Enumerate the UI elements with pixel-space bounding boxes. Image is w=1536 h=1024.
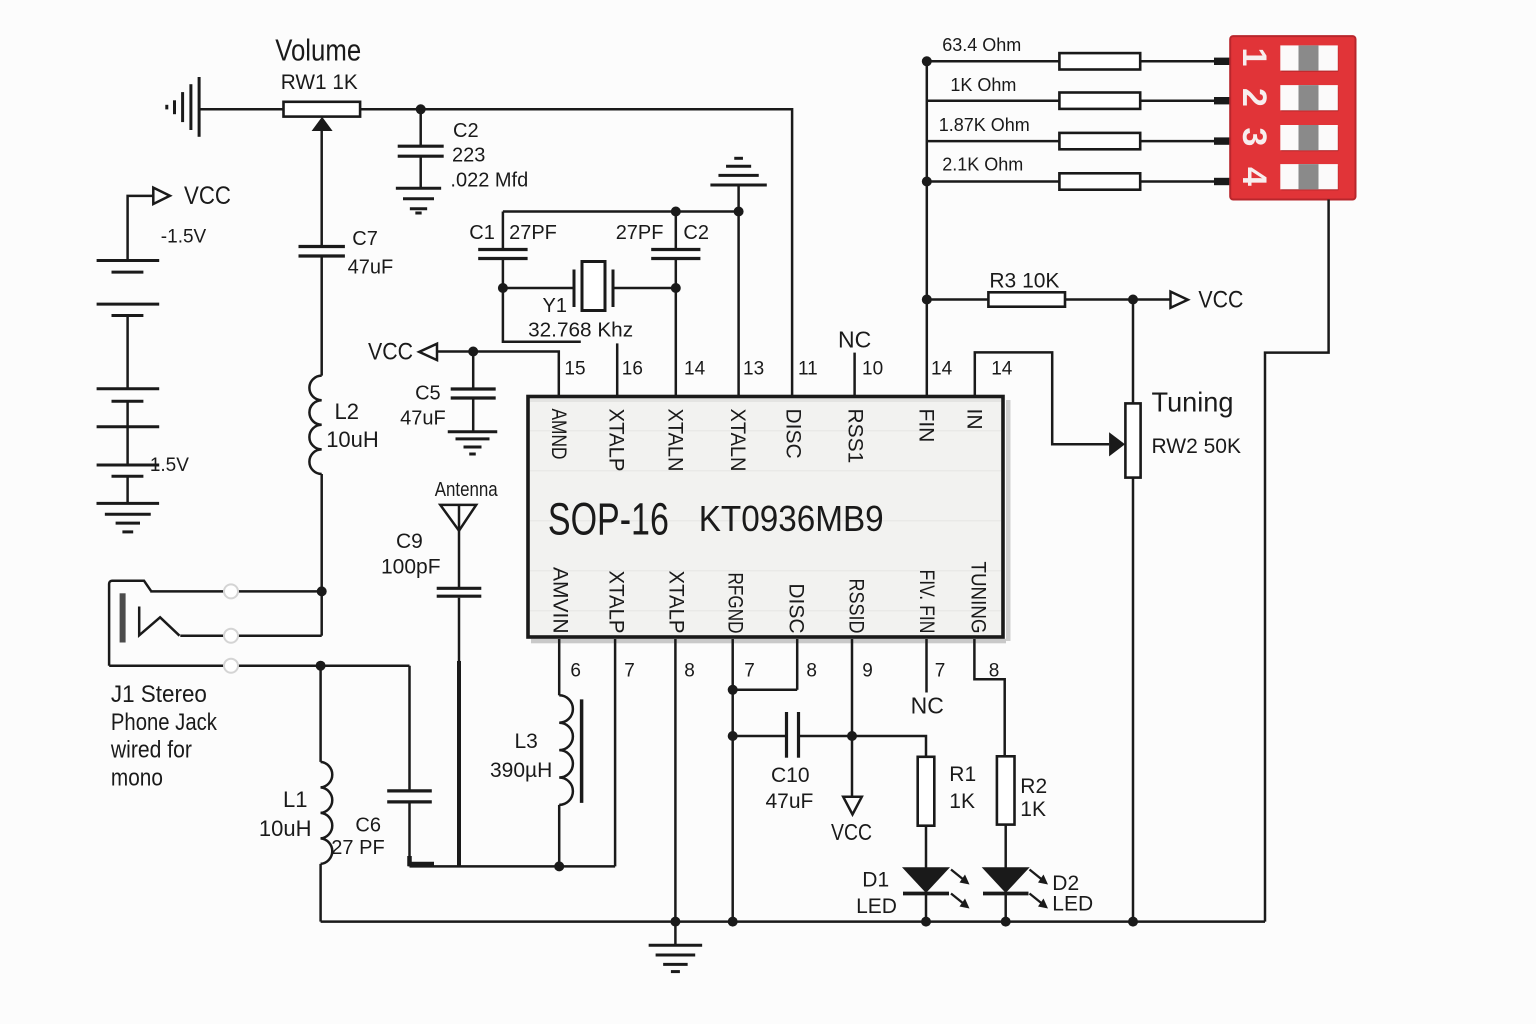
svg-text:14: 14: [931, 359, 953, 380]
svg-text:XTALP: XTALP: [665, 571, 688, 634]
junction bus-ground: [670, 917, 680, 927]
svg-text:VCC: VCC: [1198, 287, 1243, 314]
DIP switch SW1 body: [1230, 36, 1355, 199]
svg-text:KT0936MB9: KT0936MB9: [699, 498, 884, 539]
wire row4 bus to resistor: [927, 180, 1060, 183]
svg-text:16: 16: [622, 359, 643, 380]
svg-text:47uF: 47uF: [348, 256, 394, 278]
wire ladder bus: [926, 61, 929, 299]
capacitor C10 plates: [785, 712, 788, 758]
svg-text:.022 Mfd: .022 Mfd: [450, 170, 528, 192]
svg-text:27PF: 27PF: [509, 222, 557, 244]
VCC arrow (mid, pointing left): [419, 344, 437, 360]
svg-text:8: 8: [684, 661, 695, 682]
resistor 1K Ohm body: [1059, 93, 1140, 109]
svg-text:LED: LED: [1052, 893, 1093, 916]
svg-text:1: 1: [1235, 48, 1273, 67]
svg-text:7: 7: [624, 661, 635, 682]
wire C2b lower to IC pin 14 (XTALN): [675, 260, 678, 397]
svg-text:11: 11: [798, 359, 818, 380]
wire L2 to jack tip junction: [320, 474, 323, 591]
capacitor C9 plates: [437, 587, 482, 590]
wire junction down to RW2: [1132, 300, 1135, 404]
LED D1 triangle: [902, 867, 950, 893]
svg-text:R3 10K: R3 10K: [989, 269, 1059, 292]
wire C6 lower to rf wire: [408, 803, 411, 866]
wire ground G1 to RW1 left: [199, 108, 283, 111]
junction sleeve-L1: [316, 661, 326, 671]
wire jack ring line: [180, 634, 321, 637]
junction C10-RSSID: [847, 731, 857, 741]
svg-text:RSSID: RSSID: [845, 579, 868, 634]
svg-text:IN: IN: [962, 409, 985, 430]
wire C10 left lead: [733, 735, 785, 738]
svg-text:9: 9: [862, 661, 873, 682]
inductor L3 core bar: [580, 699, 584, 803]
svg-text:390µH: 390µH: [490, 759, 552, 782]
junction bus-R3: [922, 295, 932, 305]
battery B1 cell plates: [97, 259, 160, 262]
wire row2 resistor to DIP pin: [1140, 99, 1214, 102]
wire D1 to bus: [925, 894, 928, 922]
svg-text:C1: C1: [469, 222, 495, 244]
wire RW1 right to IC pin 11 (DISC top): [360, 109, 792, 396]
svg-text:13: 13: [743, 359, 764, 380]
wire IC pin 8 (XTALP) to bus: [674, 639, 677, 922]
crystal Y1 body: [582, 262, 605, 311]
svg-text:Antenna: Antenna: [435, 479, 499, 501]
jack contact circle 3: [224, 659, 238, 673]
svg-text:C9: C9: [396, 530, 423, 553]
potentiometer RW1 wiper arrow: [312, 117, 333, 131]
svg-text:wired for: wired for: [110, 737, 192, 764]
wire C7 to L2: [320, 257, 323, 376]
svg-text:Y1: Y1: [543, 295, 567, 317]
svg-text:223: 223: [452, 145, 485, 167]
svg-text:27 PF: 27 PF: [331, 837, 384, 859]
LED D2 cathode bar: [983, 892, 1029, 896]
wire IC pin 8 (TUNING) to R2: [974, 639, 1004, 756]
phone jack J1 tip contact zigzag: [139, 607, 179, 636]
wire IC pin 9 (RSSID) down: [851, 639, 854, 736]
wire VCC-down stub: [851, 736, 854, 797]
svg-text:7: 7: [744, 661, 755, 682]
svg-text:VCC: VCC: [184, 182, 231, 210]
capacitor C2 27PF plates: [651, 248, 700, 251]
svg-text:32.768 Khz: 32.768 Khz: [528, 319, 633, 341]
wire R3 right to VCC arrow: [1065, 298, 1171, 301]
wire RFGND down to C10 node: [731, 690, 734, 736]
svg-text:8: 8: [806, 661, 817, 682]
LED D2 triangle: [982, 867, 1030, 893]
wire crystal left lead: [503, 287, 574, 290]
wire battery mid2: [126, 427, 129, 465]
wire D2 to bus: [1004, 894, 1007, 922]
wire ground stub: [674, 922, 677, 946]
svg-text:NC: NC: [911, 692, 944, 718]
svg-text:47uF: 47uF: [766, 790, 814, 813]
wire L1 lower to bus: [319, 864, 322, 922]
wire antenna feed (thick) to rf wire: [457, 661, 461, 866]
inductor L2 10uH coil: [309, 376, 321, 474]
svg-text:47uF: 47uF: [400, 407, 446, 429]
svg-text:C6: C6: [355, 815, 381, 837]
wire C2 branch lower: [419, 157, 422, 188]
resistor R3 body: [988, 292, 1065, 306]
svg-text:Tuning: Tuning: [1152, 387, 1234, 418]
capacitor C6 plates: [387, 789, 432, 792]
wire RW1 wiper down to C7: [320, 131, 323, 246]
svg-text:XTALN: XTALN: [664, 409, 687, 472]
svg-text:XTALN: XTALN: [726, 409, 749, 472]
junction C1-crystal: [498, 283, 508, 293]
svg-text:1.87K Ohm: 1.87K Ohm: [939, 115, 1030, 135]
wire IC pin 6 (AMVIN) to L3: [558, 639, 561, 695]
svg-text:C7: C7: [352, 228, 378, 250]
wire IC pin 16 stub (XTALP): [616, 343, 619, 396]
capacitor C7 plates: [299, 245, 345, 248]
wire row4 resistor to DIP pin: [1140, 180, 1214, 183]
wire VCC to battery top: [128, 196, 154, 259]
svg-text:L1: L1: [283, 787, 307, 812]
svg-text:TUNING: TUNING: [967, 562, 990, 634]
DIP rocker 2: [1281, 87, 1338, 111]
wire R3 left: [927, 298, 989, 301]
wire RFGND to DISC link: [733, 689, 798, 692]
wire RFGND line to bus: [731, 736, 734, 922]
capacitor C1 27PF plates: [478, 248, 527, 251]
wire IC pin 8 (DISC) down: [796, 639, 799, 690]
svg-text:J1 Stereo: J1 Stereo: [111, 681, 207, 708]
inductor L1 10uH coil: [321, 762, 333, 864]
junction bus-RW2: [1128, 917, 1138, 927]
wire C1 lower: [502, 260, 505, 289]
svg-text:RSS1: RSS1: [844, 409, 867, 464]
junction wiper-jack tip: [317, 586, 327, 596]
svg-text:Phone Jack: Phone Jack: [111, 709, 218, 736]
resistor 2.1K Ohm body: [1059, 173, 1140, 189]
DIP rocker 4: [1281, 166, 1338, 190]
crystal Y1 side plates: [573, 270, 576, 308]
wire IC pin 14 (IN) up-over to tuning arrow: [975, 352, 1109, 444]
svg-text:15: 15: [564, 359, 585, 380]
svg-text:14: 14: [991, 359, 1013, 380]
svg-text:DISC: DISC: [785, 583, 808, 633]
wire C6 branch upper: [408, 666, 411, 790]
svg-text:LED: LED: [856, 895, 897, 918]
wire RW2 bottom to bus: [1132, 478, 1135, 922]
svg-text:100pF: 100pF: [381, 556, 441, 579]
junction crystal-C2b: [671, 283, 681, 293]
wire row3 bus to resistor: [927, 140, 1060, 143]
svg-text:FIV. FIN: FIV. FIN: [915, 570, 938, 634]
wire C1 upper: [502, 212, 505, 249]
LED D1 cathode bar: [903, 892, 949, 896]
DIP rocker 3: [1281, 127, 1338, 151]
wire R1 to D1: [925, 826, 928, 868]
svg-text:7: 7: [935, 661, 946, 682]
junction C5 tap: [468, 347, 478, 357]
svg-text:RW1 1K: RW1 1K: [281, 70, 359, 94]
svg-text:RW2 50K: RW2 50K: [1152, 435, 1242, 458]
svg-text:C5: C5: [415, 383, 441, 405]
svg-text:-1.5V: -1.5V: [161, 227, 207, 248]
wire IC pin 7 (FIV FIN) NC stub: [925, 639, 928, 693]
tuning wiper arrow: [1109, 432, 1125, 456]
wire VCC to IC pin 15 (AMND): [437, 352, 559, 397]
ground below C2: [396, 187, 441, 190]
junction bus-RFGND: [728, 917, 738, 927]
DIP pin stub row4: [1214, 178, 1232, 185]
wire C5 upper: [472, 352, 475, 388]
svg-text:4: 4: [1235, 167, 1273, 186]
wire row1 bus to resistor: [927, 60, 1060, 63]
VCC arrow (top left): [153, 188, 170, 204]
potentiometer RW1 1K body: [284, 102, 361, 117]
wire IC pin 7 (XTALP) down: [614, 639, 617, 866]
resistor R1 body: [918, 757, 935, 826]
junction RFGND-DISC: [728, 685, 738, 695]
wire R2 to D2: [1004, 825, 1007, 868]
VCC arrow (down): [843, 797, 862, 815]
wire crystal top rail: [503, 210, 739, 213]
DIP pin stub row2: [1214, 97, 1232, 104]
svg-text:XTALP: XTALP: [605, 409, 628, 472]
wire battery mid2a: [126, 401, 129, 427]
jack contact circle 1: [224, 584, 238, 598]
junction top-rail pin13: [734, 207, 744, 217]
svg-text:D1: D1: [862, 869, 889, 892]
svg-text:C2: C2: [453, 120, 479, 142]
wire C6 corner nub: [410, 856, 435, 864]
wire ground to IC pin 13 (XTALN): [737, 185, 740, 397]
jack contact circle 2: [224, 629, 238, 643]
wire bus to IC pin 14 (FIN): [926, 300, 929, 397]
wire antenna down to C9: [458, 505, 461, 587]
junction bus row4: [922, 177, 932, 187]
potentiometer RW2 50K body: [1125, 403, 1140, 477]
wire crystal right lead: [613, 287, 676, 290]
VCC arrow (right): [1171, 292, 1188, 308]
svg-text:1K: 1K: [1020, 798, 1046, 821]
wire row2 bus to resistor: [927, 99, 1060, 102]
capacitor C2 .022Mfd plates: [398, 145, 444, 148]
svg-text:R1: R1: [949, 763, 976, 786]
junction bus row1: [922, 56, 932, 66]
wire row3 resistor to DIP pin: [1140, 140, 1214, 143]
wire rf node line (C6 to pin 7): [410, 865, 616, 868]
svg-text:C10: C10: [771, 764, 810, 787]
svg-text:AMVIN: AMVIN: [549, 567, 572, 634]
resistor R2 body: [997, 756, 1015, 824]
svg-text:AMND: AMND: [547, 409, 570, 460]
junction top-rail C2b: [671, 207, 681, 217]
svg-text:mono: mono: [111, 765, 163, 792]
junction bus-D1: [921, 917, 931, 927]
wire IC pin 10 stub (RSS1) NC: [853, 353, 856, 397]
wire ground bus: [321, 920, 1265, 923]
svg-text:-1.5V: -1.5V: [144, 455, 190, 476]
capacitor C5 plates: [451, 387, 496, 390]
wire jack sleeve line: [109, 664, 409, 667]
wire IC pin 7 (RFGND) down: [731, 639, 734, 690]
wire row1 resistor to DIP pin: [1140, 60, 1214, 63]
junction R3-tuning: [1128, 295, 1138, 305]
svg-text:6: 6: [570, 661, 581, 682]
DIP pin stub row3: [1214, 137, 1232, 144]
wire C5 lower: [472, 399, 475, 432]
svg-text:FIN: FIN: [914, 409, 937, 443]
svg-text:RFGND: RFGND: [724, 573, 747, 634]
wire C2 branch upper: [419, 109, 422, 145]
svg-text:VCC: VCC: [831, 819, 872, 845]
battery B3 cell plates: [97, 464, 160, 467]
resistor 63.4 Ohm body: [1059, 53, 1140, 69]
wire L1 upper: [319, 666, 322, 762]
ground (inverted) above pin 13: [710, 184, 766, 187]
ground below C5: [448, 430, 498, 433]
svg-text:1K Ohm: 1K Ohm: [950, 75, 1016, 95]
svg-text:2.1K Ohm: 2.1K Ohm: [942, 155, 1023, 175]
wire jack tip line: [150, 590, 322, 593]
resistor 1.87K Ohm body: [1059, 133, 1140, 149]
antenna symbol: [440, 505, 476, 531]
wire DIP pin4-bottom to bus right: [1265, 200, 1329, 922]
IC U1 SOP-16 KT0936MB9 body: [1006, 400, 1011, 641]
wire C9 lower: [458, 598, 461, 661]
ground G1 (tilted, left of RW1): [198, 77, 201, 137]
svg-text:R2: R2: [1020, 775, 1047, 798]
svg-text:10uH: 10uH: [259, 816, 312, 841]
DIP rocker 1: [1281, 47, 1338, 71]
svg-text:63.4 Ohm: 63.4 Ohm: [942, 35, 1021, 55]
ground below battery: [97, 502, 160, 505]
svg-text:C2: C2: [683, 222, 709, 244]
svg-text:10: 10: [862, 359, 883, 380]
ground (main, below bus): [649, 944, 703, 947]
svg-text:3: 3: [1235, 128, 1273, 147]
svg-text:2: 2: [1235, 88, 1273, 107]
svg-text:VCC: VCC: [368, 338, 413, 365]
wire C2b upper: [675, 212, 678, 249]
battery B2 cell plates: [97, 387, 160, 390]
wire C10 right lead to R1 drop: [800, 736, 926, 757]
wire crystal branch down-left: [503, 288, 581, 342]
junction rf-L3: [554, 861, 564, 871]
LED D1 light arrows: [951, 870, 964, 881]
phone jack J1 sleeve bar: [120, 593, 126, 642]
svg-text:L2: L2: [335, 399, 359, 424]
wire battery mid1: [126, 316, 129, 389]
svg-text:27PF: 27PF: [616, 222, 664, 244]
junction bus-D2: [1001, 917, 1011, 927]
svg-text:L3: L3: [515, 730, 538, 753]
svg-text:DISC: DISC: [782, 409, 805, 459]
svg-text:10uH: 10uH: [326, 427, 379, 452]
svg-text:Volume: Volume: [275, 33, 361, 68]
svg-text:XTALP: XTALP: [605, 571, 628, 634]
junction C10 left: [728, 731, 738, 741]
junction at C2 top-wire: [416, 104, 426, 114]
svg-text:1K: 1K: [949, 790, 975, 813]
wire tip junction down to ring line: [320, 591, 323, 635]
DIP pin stub row1: [1214, 58, 1232, 65]
wire L3 to rf wire: [558, 805, 561, 867]
svg-text:14: 14: [684, 359, 706, 380]
inductor L3 390uH coil: [559, 695, 573, 805]
svg-text:NC: NC: [838, 327, 871, 353]
svg-text:SOP-16: SOP-16: [548, 494, 669, 545]
wire battery to ground: [126, 476, 129, 503]
LED D2 light arrows: [1030, 870, 1043, 881]
phone jack J1 body outline: [109, 581, 151, 666]
